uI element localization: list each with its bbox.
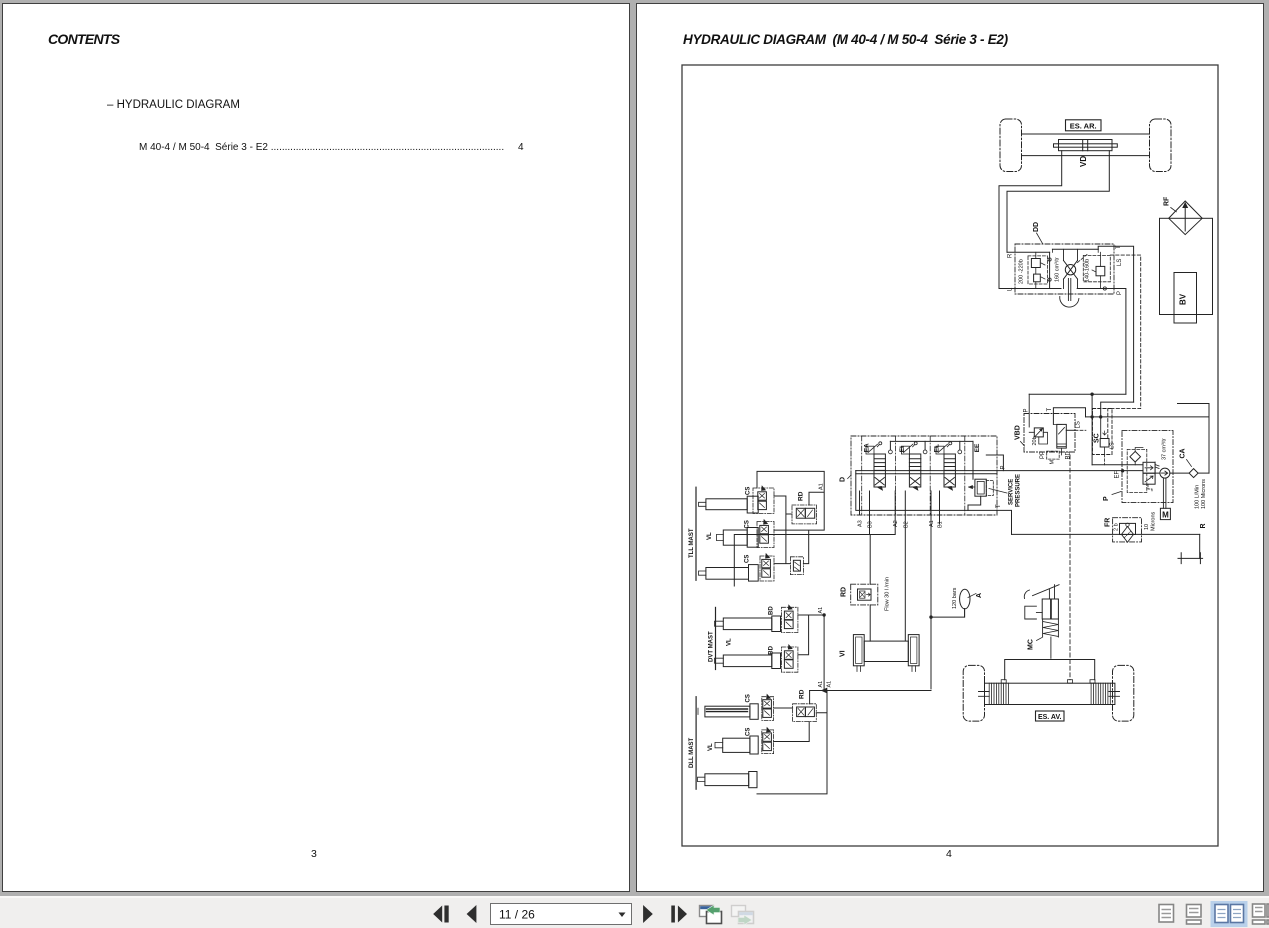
wire diff-right to DD R port [1007,151,1109,253]
svg-text:VL: VL [708,743,714,751]
tilt cylinders VI [853,635,919,672]
suction strainer CA [1189,469,1209,478]
svg-text:T: T [1116,245,1122,249]
wire to accumulator [931,609,965,618]
svg-text:A1: A1 [819,483,825,490]
label A [968,593,983,598]
svg-text:B2: B2 [903,521,909,528]
svg-text:VBD: VBD [1015,425,1022,440]
wire RD to VI [869,605,871,641]
single page view icon [1159,905,1174,923]
diagram outer frame [682,65,1218,846]
junction accumulator line [929,615,932,618]
svg-text:DVT MAST: DVT MAST [709,631,715,662]
svg-text:20b: 20b [1032,436,1038,445]
left document page [2,3,630,892]
wire down to tank [1199,534,1201,558]
wire DD LS dashed to SC [1108,255,1141,438]
svg-text:RF: RF [1164,196,1171,206]
svg-text:37 cm³/tr: 37 cm³/tr [1162,438,1168,460]
wire B3 to mast circuits [734,515,869,586]
label MC [1028,638,1043,651]
last page button [671,906,687,923]
svg-text:RD: RD [799,689,806,699]
svg-text:A1: A1 [818,607,824,614]
svg-text:R: R [1008,253,1014,258]
svg-text:FR: FR [1105,518,1112,527]
wire T return from distributor [997,510,1012,534]
svg-text:CS: CS [746,487,752,495]
svg-text:B3: B3 [868,521,874,528]
rear left wheel [1000,119,1022,172]
right page title [683,32,1008,47]
svg-text:EL: EL [934,444,941,452]
DLL cylinder 3 [698,772,758,788]
labels A1 A1 [818,681,833,688]
svg-text:CA: CA [1180,448,1187,458]
previous view button [700,905,722,924]
label CA [1180,448,1192,466]
svg-text:ES. AV.: ES. AV. [1038,714,1062,721]
wire P down to pump [1091,394,1093,465]
two page view icon (selected) [1211,901,1248,927]
label DD [1033,222,1043,244]
lock valve BD (DVT1) [782,605,798,633]
DD variable motor symbol [1052,249,1098,307]
svg-text:A1: A1 [827,681,833,688]
svg-text:ES. AR.: ES. AR. [1070,121,1097,130]
svg-text:100 L/Min: 100 L/Min [1195,485,1201,509]
pump unit block P (dash-dot) [1122,431,1173,503]
svg-text:BD: BD [1066,450,1072,459]
wire diff-left to DD L port [999,151,1062,289]
front axle frame [1001,660,1095,684]
DLL piping [757,691,827,794]
svg-text:A: A [976,593,983,598]
brake master cylinder MC [1024,585,1059,659]
unloader valve EF [1143,462,1159,492]
svg-text:EF: EF [1115,470,1121,478]
VBD LS line [1066,429,1075,431]
DLL MAST group rule [689,697,696,790]
tank return symbol [1178,553,1203,564]
svg-text:100 Microns: 100 Microns [1201,479,1207,509]
svg-text:EE: EE [974,443,981,452]
brake valve block VBD (dash-dot) [1024,414,1075,453]
svg-text:LS: LS [1110,442,1116,449]
label SERVICE PRESSURE [989,474,1022,507]
svg-text:VL: VL [707,532,713,540]
main relief EE [968,479,993,510]
svg-text:VI: VI [840,650,847,657]
VBD reducing valve BD [1053,424,1066,455]
TOC line with dot leader [139,142,529,153]
svg-text:A3: A3 [858,520,864,527]
svg-text:MC: MC [1028,639,1035,650]
svg-text:PRESSURE: PRESSURE [1016,474,1022,507]
svg-text:DLL MAST: DLL MAST [689,737,695,768]
DLL cylinder 2 [715,736,758,754]
pdf viewer bottom toolbar [0,896,1269,928]
accumulator A [960,589,970,617]
svg-text:P: P [1117,291,1123,295]
DVT piping [798,613,826,690]
svg-text:10: 10 [1144,524,1150,530]
DD L gallery [999,288,1061,290]
svg-text:A1: A1 [929,520,935,527]
return filter FR (dash-dot) [1113,518,1142,542]
svg-text:140-160b: 140-160b [1085,259,1091,282]
tank BV [1174,273,1197,324]
DD P gallery with test point [1077,287,1113,290]
DVT cylinder 1 [715,616,781,632]
value 100 L/Min 100 Microns [1195,479,1208,509]
svg-text:P: P [1024,408,1030,412]
check valve block CS (cyl1) [753,486,774,514]
restrictor (TLL small) [790,557,803,575]
left brake disc pack [989,683,1008,704]
wire EE pilot to P [986,455,1003,471]
DLL cylinder 1 [698,704,758,720]
oil cooler RF [1169,201,1203,235]
svg-text:SERVICE: SERVICE [1009,479,1015,505]
rear right wheel [1150,119,1172,172]
VBD gauge port PP [1040,451,1059,465]
svg-text:BD: BD [769,645,775,654]
svg-text:TLL MAST: TLL MAST [689,528,695,558]
svg-text:A1: A1 [818,681,824,688]
label RF [1164,196,1177,212]
right document page [636,3,1264,892]
svg-text:D: D [840,477,847,482]
DD secondary relief (dashed box) [1083,252,1110,288]
differential VD [1054,140,1118,151]
svg-text:RD: RD [798,491,805,501]
value 10 Microns (FR) [1144,511,1157,531]
right page number [946,848,952,860]
TLL lift cylinder 1 [699,496,759,513]
wire VBD T loop [1053,408,1085,425]
electric motor M [1160,508,1170,519]
previous page button [467,905,477,923]
svg-text:M: M [1050,460,1056,465]
first page button [433,906,448,923]
check valve block CS (DLL1) [762,694,774,720]
svg-text:CS: CS [745,520,751,528]
two page continuous icon (clipped) [1253,904,1269,924]
svg-text:CS: CS [745,555,751,563]
VBD relief valve [1029,394,1047,444]
wire tank suction stub [1178,404,1210,474]
reservoir enclosure [1160,218,1213,314]
svg-text:2 b: 2 b [1114,523,1120,531]
svg-text:CS: CS [746,694,752,702]
spool valve EI [901,442,920,490]
SC valve [1100,417,1109,465]
wire DD T to interconnect [1098,246,1133,402]
label ES. AR. [1066,120,1102,131]
D section dividers [862,436,965,515]
svg-text:LS: LS [1076,421,1082,428]
check valve block CS (DLL2) [762,728,774,754]
steering priority block SC (dashed) [1093,409,1113,455]
svg-text:Microns: Microns [1151,511,1157,531]
pump circle [1155,468,1189,478]
front left wheel [963,665,984,721]
label ES. AV. [1036,711,1065,721]
check valve block CS (cyl2) [757,520,774,548]
lock valve BD (DVT2) [782,645,798,673]
svg-text:BV: BV [1179,293,1188,305]
junction dot return manifold [1090,415,1093,418]
spool valve EA [866,442,885,490]
svg-text:200 -220b: 200 -220b [1019,259,1025,284]
svg-text:Flow 30 l /min: Flow 30 l /min [885,577,891,611]
svg-text:11 / 26: 11 / 26 [499,908,535,922]
label VBD [1015,425,1025,446]
front right wheel [1113,665,1134,721]
svg-text:160 cm³/tr: 160 cm³/tr [1055,257,1061,282]
svg-text:EI: EI [899,446,906,452]
wire P line into pump [1092,464,1143,466]
svg-text:CS: CS [746,728,752,736]
DVT MAST group rule [709,607,716,669]
svg-text:P: P [1103,496,1110,501]
D bottom T gallery [856,471,997,511]
svg-text:RD: RD [841,587,848,597]
svg-text:DD: DD [1033,222,1040,232]
wire A1 down [930,515,932,689]
pump drive shaft [1163,478,1166,508]
wire return manifold [1086,416,1210,418]
DD R gallery [1007,251,1050,253]
front axle body [985,683,1115,704]
D top pilot bus [889,441,974,479]
DD crossover relief valves with dashed pilot box [1028,252,1047,288]
wire R return line [1012,533,1200,535]
svg-text:R: R [1200,523,1207,528]
FR bypass and element [1120,523,1136,542]
rear axle shafts [1022,134,1150,156]
hydrostatic motor block DD (dash-dot enclosure) [1015,244,1114,294]
TLL MAST group rule [689,487,696,580]
svg-text:VL: VL [727,638,733,646]
DD internal line with test points [1048,252,1051,288]
D P/T galleries [856,471,1143,474]
DVT cylinder 2 [715,653,781,669]
label D [840,475,851,482]
check valve block CS (cyl3) [760,554,774,581]
svg-text:T: T [1047,408,1053,412]
TLL lift cylinder 2 [716,528,758,548]
svg-text:VD: VD [1079,156,1088,167]
D port stubs [860,491,940,524]
spool valve EL [936,442,955,490]
junction dot SC feed [1099,415,1102,418]
wire B2 down to tilt [904,515,906,641]
left page number [311,848,317,860]
lowering valve RD (DLL) [793,704,817,722]
svg-text:B1: B1 [938,521,944,528]
wire A1 supply line [810,688,931,693]
wire P supply from junction to VBD [1029,393,1126,396]
svg-text:SC: SC [1094,433,1101,443]
svg-text:PP: PP [1040,451,1046,459]
flow regulator RD (tilt) [851,584,878,605]
right brake disc pack [1091,683,1110,704]
svg-text:120 bars: 120 bars [952,587,958,609]
CONTENTS heading [48,31,119,47]
front axle stub shafts [979,692,1120,697]
page number entry box [491,904,632,925]
TOC entry heading [107,99,240,111]
svg-text:M: M [1162,511,1169,520]
svg-text:A2: A2 [893,520,899,527]
svg-text:EA: EA [864,443,871,452]
pump inner dashed box [1127,449,1147,492]
wire EF service line junction [1121,469,1124,472]
next page button [643,905,653,923]
wire BD pilot dashed down to front axle [1069,455,1071,680]
wire interconnect to SC [1101,402,1134,417]
distributor block D (dash-dot) [851,436,997,515]
wire A2 down to flow regulator [870,515,895,584]
svg-text:BD: BD [769,606,775,615]
TLL lift cylinder 3 [699,565,759,582]
svg-text:LS: LS [1117,259,1123,266]
label P (pump unit) [1103,492,1121,502]
wire DD P to interconnect (long vertical) [1114,289,1126,395]
TLL piping [757,471,824,563]
pump suction filter diamond [1130,448,1143,465]
lowering valve RD (TLL) [792,505,817,524]
continuous view icon [1187,905,1202,925]
next view button (disabled) [732,906,754,926]
